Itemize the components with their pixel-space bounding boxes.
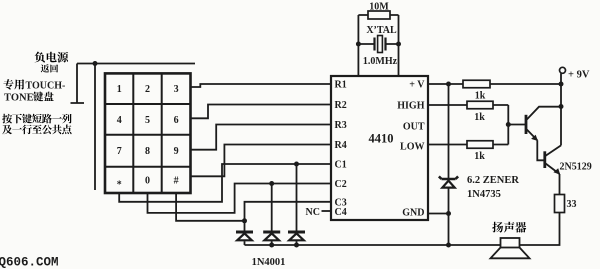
- crystal XTAL 1.0MHz: [375, 36, 386, 53]
- svg-text:Q606.COM: Q606.COM: [0, 256, 59, 270]
- keypad common terminal symbol: [71, 64, 85, 104]
- wire diode D2 branch: [271, 184, 273, 246]
- resistor 10M: [368, 11, 390, 19]
- wire zener rail lower: [448, 188, 450, 245]
- svg-text:3: 3: [174, 84, 179, 95]
- wire keypad row3 to R3: [191, 125, 332, 150]
- junction D2 return: [269, 243, 274, 248]
- svg-text:NC: NC: [306, 207, 320, 218]
- svg-text:TOUCH-: TOUCH-: [26, 81, 66, 92]
- junction C2/D2: [269, 181, 274, 186]
- svg-text:C1: C1: [335, 160, 347, 171]
- wire +V to +9V rail: [428, 83, 561, 85]
- junction GND/zener rail: [446, 211, 451, 216]
- svg-text:1k: 1k: [474, 112, 485, 123]
- wire emitter to speaker: [520, 213, 560, 246]
- op-amp U1 4410 tone generator IC: [331, 76, 428, 220]
- svg-text:GND: GND: [402, 208, 424, 219]
- svg-text:10M: 10M: [369, 2, 389, 13]
- junction osc left: [356, 42, 361, 47]
- svg-text:LOW: LOW: [400, 142, 424, 153]
- svg-text:6: 6: [174, 115, 179, 126]
- wire keypad row1 to R1: [191, 84, 332, 87]
- diode D1 1N4001: [236, 231, 253, 234]
- wire diode D3 branch: [296, 164, 298, 245]
- terminal +9V: [560, 67, 566, 73]
- svg-text:R2: R2: [335, 100, 347, 111]
- junction +9V/Q1 collector: [559, 104, 564, 109]
- svg-text:OUT: OUT: [403, 122, 425, 133]
- wire keypad row2 to R2: [191, 105, 332, 119]
- wire diode D1 branch: [244, 221, 246, 245]
- wire GND to zener rail: [428, 213, 449, 215]
- svg-text:HIGH: HIGH: [397, 101, 424, 112]
- wire return to speaker: [449, 244, 501, 246]
- wire osc left: [357, 15, 359, 76]
- resistor R 1k (HIGH): [467, 101, 493, 109]
- svg-text:*: *: [117, 180, 122, 191]
- wire keypad col1 to C1: [119, 164, 331, 202]
- svg-text:C4: C4: [335, 207, 347, 218]
- wire Q1 base: [508, 124, 525, 126]
- label 按下键短路一列及一行至公共点: [2, 114, 71, 135]
- svg-text:1N4735: 1N4735: [467, 189, 501, 200]
- label 扬声器: [492, 222, 526, 233]
- wire +9V rail: [560, 74, 562, 146]
- svg-text:4: 4: [117, 115, 122, 126]
- svg-text:1k: 1k: [474, 151, 485, 162]
- junction osc right: [396, 42, 401, 47]
- transistor Q1: [526, 107, 561, 161]
- wire keypad col2 to C2: [148, 184, 332, 213]
- svg-text:R4: R4: [335, 140, 347, 151]
- svg-text:TONE: TONE: [4, 93, 34, 104]
- junction +V/zener: [446, 82, 451, 87]
- svg-text:2N5129: 2N5129: [560, 162, 592, 173]
- wire common bus vertical: [94, 64, 96, 191]
- resistor 33 ohm: [555, 195, 565, 213]
- label 负电源返回: [34, 52, 68, 73]
- zener diode 6.2V 1N4735: [439, 176, 458, 179]
- transistor Q2 2N5129: [545, 145, 561, 194]
- svg-text:1k: 1k: [475, 91, 486, 102]
- wire osc right: [398, 15, 400, 76]
- wire common bus top: [77, 63, 195, 65]
- svg-text:#: #: [174, 176, 179, 187]
- wire LOW to mix bus: [428, 144, 508, 146]
- keypad TOUCH-TONE 3x4: [105, 73, 191, 193]
- svg-text:R1: R1: [335, 80, 347, 91]
- label 专用TOUCH-TONE键盘: [3, 79, 65, 103]
- svg-text:5: 5: [145, 115, 150, 126]
- junction col3/D1: [242, 218, 247, 223]
- wire crystal branch: [358, 43, 398, 45]
- svg-text:X’TAL: X’TAL: [366, 25, 397, 36]
- diode D3 1N4001: [288, 231, 305, 234]
- svg-text:9: 9: [174, 146, 179, 157]
- wire zener rail upper: [448, 84, 450, 178]
- junction bus/base: [506, 122, 511, 127]
- svg-text:7: 7: [117, 146, 122, 157]
- svg-text:6.2 ZENER: 6.2 ZENER: [467, 175, 519, 186]
- svg-text:33: 33: [567, 199, 577, 210]
- junction return/speaker: [446, 243, 451, 248]
- junction C1/D3: [294, 162, 299, 167]
- svg-text:1.0MHz: 1.0MHz: [363, 56, 398, 67]
- wire keypad col3 to C3: [176, 193, 331, 221]
- wire NC stub C4: [322, 210, 332, 212]
- resistor R 1k (supply): [463, 80, 490, 88]
- svg-text:R3: R3: [335, 120, 347, 131]
- svg-text:C2: C2: [335, 179, 347, 190]
- svg-text:0: 0: [145, 176, 150, 187]
- junction common bus: [93, 61, 98, 66]
- svg-text:4410: 4410: [369, 132, 394, 146]
- wire osc top through R 10M: [358, 14, 398, 16]
- wire mix bus: [507, 105, 509, 145]
- junction +9V/1k: [559, 82, 564, 87]
- svg-text:1: 1: [117, 84, 122, 95]
- svg-text:2: 2: [145, 84, 150, 95]
- svg-text:8: 8: [145, 146, 150, 157]
- junction D3 return: [294, 243, 299, 248]
- speaker 扬声器: [491, 238, 530, 258]
- resistor R 1k (LOW): [467, 141, 493, 149]
- svg-text:+ 9V: + 9V: [568, 70, 590, 81]
- wire HIGH to mix bus: [428, 104, 508, 106]
- svg-text:+ V: + V: [409, 80, 425, 91]
- wire keypad row4 to R4: [191, 145, 332, 177]
- svg-text:1N4001: 1N4001: [252, 257, 286, 268]
- diode D2 1N4001: [263, 231, 280, 234]
- wire diode common return: [245, 244, 449, 246]
